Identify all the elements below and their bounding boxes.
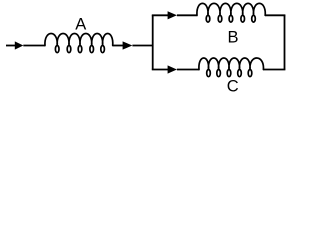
inductor A [45, 34, 113, 53]
arrow (input, left) [15, 41, 23, 49]
arrow (after A) [123, 41, 133, 49]
arrow (branch C) [168, 65, 177, 73]
inductor C [199, 58, 264, 77]
wire (bottom branch lead) [152, 69, 169, 71]
wire [132, 45, 153, 47]
inductor B [197, 3, 265, 22]
wire (input lead) [6, 45, 16, 47]
wire [113, 45, 124, 47]
wire [265, 14, 285, 16]
wire (top branch lead) [152, 14, 169, 16]
wire [23, 45, 45, 47]
arrow (branch B) [168, 11, 177, 19]
wire [177, 14, 198, 16]
wire (junction vertical) [152, 15, 154, 69]
wire [177, 69, 200, 71]
wire [263, 69, 285, 71]
svg-text:A: A [75, 16, 86, 34]
svg-text:C: C [227, 78, 239, 96]
svg-text:B: B [227, 29, 238, 47]
wire (right vertical) [284, 15, 286, 69]
